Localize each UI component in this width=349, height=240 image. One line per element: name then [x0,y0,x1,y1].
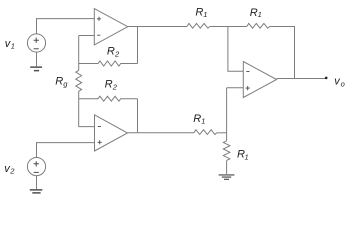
resistor R1 top-left [187,23,210,28]
wire V1 top to op-amp U1 + input [37,19,95,35]
svg-text:1: 1 [203,10,207,19]
label v2 [4,163,15,176]
wire U3 output [277,78,327,80]
U1 minus input sign [97,34,100,36]
U3 minus input sign [246,71,249,73]
V1 plus sign [34,38,39,43]
voltage source V1 [27,34,45,52]
svg-text:R: R [107,46,115,58]
wire U3 plus input [227,87,244,89]
U1 plus input sign [97,17,101,21]
wire to node B [217,132,227,134]
svg-text:1: 1 [258,10,262,19]
wire node A top [210,26,247,28]
svg-text:o: o [341,79,345,88]
svg-text:2: 2 [9,167,15,176]
label R1 top-right [250,7,262,19]
label vo [334,76,344,89]
resistor R1 bottom [194,130,217,135]
output terminal dot [325,77,328,80]
wire U1 output [128,26,187,28]
label R1 top-left [195,7,207,20]
svg-text:R: R [195,7,203,19]
resistor R2 bottom feedback [79,96,138,101]
wire V2 top to op-amp U2 + input [37,143,95,158]
svg-text:1: 1 [201,116,205,125]
wire R1 feedback to output node [270,27,295,79]
svg-text:R: R [193,113,201,125]
V2 plus sign [34,161,39,166]
wire node A rail upper [78,36,80,64]
op-amp U3 [243,62,276,98]
resistor R1 top-right feedback [247,23,270,28]
svg-text:R: R [105,79,113,91]
V1 minus sign [34,48,39,50]
ground G3 [219,175,235,179]
label R2 top [107,46,120,59]
wire U1 minus input [79,35,95,37]
wire R2 top to U1 output [137,27,139,64]
label R1 ground leg [237,149,249,162]
svg-text:2: 2 [112,83,118,92]
wire R2 bottom to U2 output [137,99,139,133]
label v1 [5,38,15,51]
wire R1 to ground [226,161,228,175]
wire Rg bottom to node B rail [78,91,80,98]
ground G2 [30,190,43,193]
wire node B up to U3 plus [226,88,228,133]
U2 minus input sign [98,126,101,128]
wire rail to Rg [78,64,80,71]
svg-text:g: g [63,80,68,89]
wire V2 bottom to ground [36,175,38,189]
wire V1 bottom to ground [36,52,38,66]
wire U2 output [128,132,195,134]
svg-text:R: R [250,7,258,19]
wire node B down to R1 ground leg [226,133,228,141]
svg-text:1: 1 [245,152,249,161]
op-amp U1 [94,9,128,45]
voltage source V2 [27,158,45,176]
U2 plus input sign [98,140,102,144]
svg-text:R: R [55,76,63,88]
wire node B rail lower [79,99,95,127]
svg-text:1: 1 [11,42,15,51]
ground G1 [30,67,42,71]
label R2 bottom [105,79,118,92]
wire node A down to U3 minus input [228,27,243,72]
V2 minus sign [34,171,39,173]
op-amp U2 [95,115,128,151]
svg-text:2: 2 [114,50,120,59]
resistor R2 top feedback [79,61,138,66]
label Rg [55,76,68,89]
resistor R1 ground leg [223,141,230,161]
U3 plus input sign [246,86,250,90]
label R1 bottom [193,113,205,126]
resistor Rg [76,70,82,91]
